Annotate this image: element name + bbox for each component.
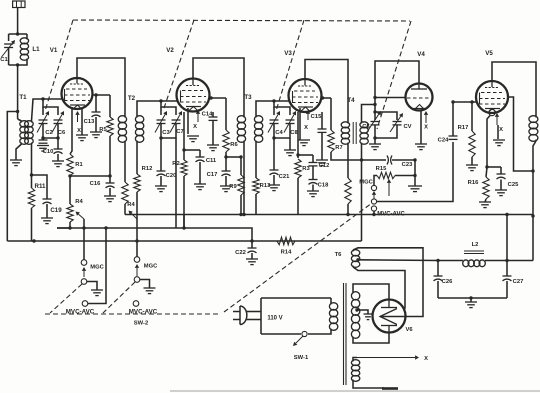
tube V1 bbox=[62, 78, 93, 109]
resistor R4 volume bbox=[69, 176, 71, 204]
wire V5 screen to output bbox=[508, 97, 533, 171]
ground switch1 bbox=[91, 289, 103, 291]
wire dashed gang slant 3 bbox=[276, 20, 304, 111]
tuning gang box stage2 bbox=[161, 101, 176, 115]
switch MGC 1 bbox=[83, 219, 85, 260]
svg-text:R4: R4 bbox=[75, 199, 83, 205]
inductor L1 bbox=[9, 33, 27, 35]
switch MGC 2 bbox=[136, 227, 138, 257]
ground switch2 bbox=[144, 287, 156, 289]
svg-text:110 V: 110 V bbox=[267, 316, 282, 322]
ground V2 cathode bbox=[187, 135, 199, 137]
wire antenna lead bbox=[17, 8, 19, 35]
svg-text:T2: T2 bbox=[128, 95, 136, 102]
resistor R16 bbox=[486, 167, 487, 177]
wire V2 plate bbox=[210, 97, 227, 99]
wire AVC rail 2 bbox=[57, 228, 252, 241]
ground plate bypass V1 bbox=[90, 131, 102, 133]
svg-text:R5: R5 bbox=[99, 127, 107, 133]
wire AVC to C24 bbox=[377, 142, 453, 202]
capacitor C21 bbox=[273, 138, 275, 170]
svg-text:C15: C15 bbox=[311, 114, 322, 120]
tube V5 bbox=[476, 81, 508, 113]
svg-text:R7: R7 bbox=[335, 145, 342, 151]
ground C20 bbox=[155, 185, 167, 187]
resistor R13 bbox=[255, 142, 257, 178]
svg-text:MGC: MGC bbox=[90, 265, 104, 271]
svg-text:C6: C6 bbox=[58, 130, 66, 136]
ground V3 cathode bbox=[298, 139, 310, 141]
svg-text:C22: C22 bbox=[235, 250, 246, 256]
svg-text:C17: C17 bbox=[207, 172, 218, 178]
capacitor C17 bbox=[225, 157, 227, 171]
capacitor C1 bbox=[8, 34, 10, 41]
wire V5 cathode bbox=[487, 116, 490, 168]
wire dashed switch link bottom bbox=[45, 313, 221, 315]
wire V1 plate bbox=[92, 94, 110, 96]
arrow C13 cathode bbox=[77, 115, 79, 122]
wire dashed gang slant 4 bbox=[377, 21, 411, 129]
T6 filament winding bottom bbox=[352, 360, 354, 362]
wire AVC rail stage1 bbox=[57, 227, 69, 229]
svg-text:R9: R9 bbox=[229, 184, 237, 190]
capacitor C12 bbox=[298, 154, 313, 156]
tube V6 bbox=[373, 300, 406, 333]
tube V3 bbox=[289, 79, 322, 112]
svg-text:R4: R4 bbox=[127, 202, 135, 208]
capacitor C16 bbox=[109, 176, 111, 183]
wire V2 top cap to T3 bbox=[193, 58, 244, 116]
wire to C19 bbox=[32, 175, 48, 199]
wire V4 top cap bbox=[375, 61, 419, 98]
wire HV top to V6 plate bbox=[353, 284, 389, 300]
variable capacitor C3 bbox=[157, 119, 166, 121]
resistor R15 bbox=[377, 172, 395, 178]
svg-text:R3: R3 bbox=[302, 166, 310, 172]
capacitor grid bypass stage1 bbox=[57, 138, 59, 149]
svg-text:X: X bbox=[193, 124, 197, 130]
svg-text:X: X bbox=[424, 356, 428, 362]
wire R16 C25 rail bbox=[487, 166, 501, 168]
resistor R11 bbox=[31, 175, 33, 188]
capacitor C19 bbox=[43, 198, 52, 200]
wire T3 secondary top to V3 grid bbox=[256, 101, 289, 116]
svg-text:C16: C16 bbox=[90, 181, 101, 187]
svg-text:SW-1: SW-1 bbox=[294, 355, 309, 361]
variable capacitor C4 bbox=[270, 119, 279, 121]
ground C19 bbox=[41, 217, 53, 219]
wire bus 3 bbox=[7, 240, 361, 242]
svg-text:R12: R12 bbox=[142, 166, 153, 172]
switch SW-1 bbox=[302, 331, 307, 336]
wire MVC3 stub bbox=[373, 211, 375, 214]
wire dashed switch slant 2 bbox=[103, 282, 135, 313]
wire B+ from rectifier bbox=[356, 258, 359, 261]
ground V3 bypass bbox=[316, 159, 328, 161]
capacitor C26 bbox=[437, 261, 439, 277]
tube V2 bbox=[177, 79, 210, 112]
arrow X V5 bbox=[496, 117, 498, 125]
tuning gang box stage1 bbox=[43, 99, 58, 115]
wire filter ground rail bbox=[438, 297, 507, 299]
inductor L2 bbox=[463, 260, 469, 267]
variable capacitor C2 bbox=[39, 119, 48, 121]
core L2 bbox=[464, 250, 484, 252]
wire MVC1 bbox=[88, 228, 106, 304]
svg-text:V1: V1 bbox=[50, 47, 58, 54]
svg-text:R17: R17 bbox=[458, 125, 469, 131]
svg-text:SW-2: SW-2 bbox=[134, 321, 148, 327]
svg-text:C1: C1 bbox=[0, 57, 8, 63]
output transformer coil bbox=[535, 116, 537, 118]
svg-text:V6: V6 bbox=[405, 327, 413, 333]
wire T2 secondary bottom to R12 bbox=[136, 142, 138, 174]
svg-text:C20: C20 bbox=[166, 173, 177, 179]
wire T1 secondary bottom bbox=[31, 144, 33, 175]
svg-text:C13: C13 bbox=[84, 119, 95, 125]
svg-text:T4: T4 bbox=[347, 97, 355, 104]
resistor R12 bbox=[134, 174, 140, 192]
svg-text:C26: C26 bbox=[442, 279, 453, 285]
variable capacitor C7 bbox=[172, 119, 181, 121]
wire R15 right bbox=[395, 175, 415, 177]
capacitor C11 bbox=[184, 149, 200, 151]
ground C16 bbox=[104, 195, 116, 197]
ground HV center tap bbox=[364, 313, 373, 315]
svg-text:T1: T1 bbox=[19, 94, 27, 101]
svg-text:MGC: MGC bbox=[144, 264, 158, 270]
wire filament X arrow bbox=[353, 358, 357, 361]
svg-text:C3: C3 bbox=[162, 130, 170, 136]
wire R15 ground branch bbox=[414, 160, 416, 186]
svg-text:R11: R11 bbox=[34, 183, 46, 190]
wire HV center tap ground bbox=[355, 308, 358, 311]
resistor T4 primary dropping bbox=[347, 144, 349, 178]
svg-text:C23: C23 bbox=[402, 162, 413, 168]
ground stage1 bypass bbox=[52, 160, 64, 162]
wire dashed to MVC3 bbox=[224, 203, 372, 312]
wire ground return left bbox=[7, 112, 17, 242]
svg-text:C12: C12 bbox=[319, 163, 330, 169]
ground V2 bypass bbox=[207, 144, 219, 146]
svg-text:V5: V5 bbox=[485, 50, 493, 57]
core T4 bbox=[352, 122, 354, 144]
svg-text:C11: C11 bbox=[206, 158, 217, 164]
wire HV bottom to V6 bbox=[353, 332, 389, 343]
wire T1 primary to ground bbox=[16, 144, 22, 160]
wire bottom page line bbox=[170, 390, 540, 392]
svg-text:X: X bbox=[499, 127, 503, 133]
wire output to B+ bbox=[532, 171, 534, 261]
T6 HV winding bbox=[352, 292, 354, 294]
node stage2 tuning bbox=[159, 99, 162, 102]
resistor R14 bbox=[277, 237, 295, 245]
node antenna junction bbox=[16, 32, 19, 35]
wire stage2 AVC return bbox=[175, 138, 177, 228]
ground T1 bbox=[10, 159, 22, 161]
ground stage3 branch bbox=[284, 149, 296, 151]
svg-text:R2: R2 bbox=[172, 161, 179, 167]
wire T1 secondary top to V1 grid bbox=[32, 99, 64, 121]
resistor R1 bbox=[67, 154, 73, 176]
ground V5 X bbox=[493, 139, 505, 141]
svg-text:R15: R15 bbox=[376, 166, 387, 172]
arrow C15 cathode bbox=[307, 114, 309, 120]
wire winding A bottom to V6 bbox=[353, 267, 405, 311]
tuning gang box stage3 bbox=[274, 101, 290, 115]
wire V4 grid bbox=[375, 98, 406, 105]
svg-text:T3: T3 bbox=[244, 94, 252, 101]
svg-text:C4: C4 bbox=[275, 130, 283, 136]
capacitor V2 cathode bypass bbox=[212, 112, 214, 117]
svg-text:V3: V3 bbox=[284, 50, 292, 57]
capacitor C25 bbox=[500, 167, 502, 174]
wire dashed gang slant 1 bbox=[45, 20, 73, 111]
svg-text:C27: C27 bbox=[513, 279, 524, 285]
svg-text:CV: CV bbox=[403, 124, 411, 130]
wire stage3 right branch ground bbox=[289, 138, 291, 150]
svg-text:R13: R13 bbox=[260, 183, 271, 189]
ground C18 bbox=[307, 190, 319, 192]
ground filter bbox=[470, 298, 472, 302]
capacitor C22 bbox=[251, 241, 253, 248]
arrow X V4 bbox=[425, 115, 427, 123]
wire R8 to B+ rail bbox=[124, 204, 126, 215]
wire V1 cathode right leg bbox=[81, 108, 83, 135]
variable capacitor C6 bbox=[54, 119, 63, 121]
capacitor C24 bbox=[449, 135, 458, 137]
svg-text:C18: C18 bbox=[318, 183, 329, 189]
capacitor C18 bbox=[309, 179, 318, 181]
ground C11 bbox=[194, 183, 206, 185]
wire R6 bottom node bbox=[226, 156, 241, 158]
resistor R7 bbox=[330, 98, 332, 130]
svg-text:R16: R16 bbox=[468, 180, 479, 186]
variable capacitor C8 bbox=[286, 119, 295, 121]
svg-text:MGC: MGC bbox=[359, 180, 373, 186]
capacitor V3 cathode bypass bbox=[321, 112, 323, 129]
ground C17 bbox=[220, 185, 232, 187]
chassis bar bbox=[382, 387, 398, 390]
wire V2 cathode ground bbox=[187, 108, 189, 134]
wire V5 top cap to output transformer bbox=[492, 62, 536, 116]
capacitor V1 plate bypass bbox=[95, 95, 97, 112]
svg-text:C19: C19 bbox=[50, 207, 62, 214]
svg-text:C25: C25 bbox=[508, 182, 519, 188]
wire T2 secondary top to V2 grid bbox=[137, 101, 177, 116]
node V1 grid tuning bbox=[41, 97, 44, 100]
svg-text:R1: R1 bbox=[75, 162, 83, 168]
ground V4 bbox=[415, 143, 427, 145]
arrow wiper to R4 second bbox=[131, 213, 137, 219]
capacitor C23 bbox=[387, 156, 388, 165]
ground R16 bbox=[479, 201, 491, 203]
wire V5 grid bbox=[453, 101, 476, 103]
svg-text:X: X bbox=[77, 128, 81, 134]
wire R11 to AVC bus bbox=[31, 208, 33, 241]
resistor R9 bbox=[240, 157, 242, 175]
tube V4 bbox=[406, 84, 433, 111]
wire switch1 ground bbox=[87, 282, 97, 291]
ground C22 bbox=[246, 258, 258, 260]
wire dashed gang slant 2 bbox=[163, 20, 194, 111]
arrow C14 cathode bbox=[197, 114, 199, 122]
wire V3 cathode ground bbox=[299, 108, 301, 140]
rectifier filament V6 bbox=[380, 309, 397, 325]
wire T3 primary bottom to rail bbox=[243, 142, 245, 215]
wire dashed gang top bbox=[73, 20, 410, 21]
variable capacitor CV bbox=[393, 121, 402, 123]
node stage3 tuning bbox=[272, 99, 275, 102]
ground V1 cathode X bbox=[76, 134, 88, 136]
resistor R17 bbox=[471, 102, 473, 131]
svg-text:L1: L1 bbox=[32, 46, 40, 53]
ground C21 bbox=[268, 184, 280, 186]
svg-text:C10: C10 bbox=[43, 149, 54, 155]
wire V1 top cap to T2 bbox=[77, 58, 125, 116]
svg-text:X: X bbox=[424, 125, 428, 131]
wire rail connector bbox=[183, 215, 185, 229]
wire V1 cathode to R1 bbox=[70, 107, 72, 154]
arrow wiper to R4 bbox=[78, 214, 84, 219]
wire switch2 ground bbox=[140, 280, 150, 289]
variable capacitor C5 box bbox=[374, 105, 376, 113]
svg-text:C2: C2 bbox=[45, 130, 52, 136]
wire R15 left to switch bbox=[374, 176, 377, 186]
capacitor C10 bbox=[42, 138, 44, 140]
ground R17 bbox=[466, 164, 478, 166]
wire filament bottom chassis bbox=[353, 381, 384, 388]
cathode circle V5 bbox=[489, 109, 495, 115]
capacitor C20 bbox=[160, 138, 162, 171]
svg-text:T6: T6 bbox=[335, 252, 343, 258]
ground R15 bbox=[408, 185, 422, 187]
resistor R8 bbox=[124, 142, 126, 182]
wire T4 secondary top bbox=[362, 105, 376, 123]
resistor R6 bbox=[225, 98, 227, 130]
ground C5 bbox=[369, 143, 381, 145]
wire L2 to C27 bbox=[485, 260, 533, 262]
switch box 110V bbox=[261, 297, 331, 299]
core T6 bbox=[343, 283, 345, 385]
svg-text:C21: C21 bbox=[279, 174, 290, 180]
svg-text:C24: C24 bbox=[438, 138, 449, 144]
plug 110V bbox=[240, 306, 247, 325]
wire V4 cathode bbox=[420, 110, 422, 144]
wire L1 to T1 bbox=[16, 63, 19, 66]
svg-text:R6: R6 bbox=[230, 142, 238, 148]
svg-text:V4: V4 bbox=[417, 51, 425, 58]
wire T4 secondary bottom bbox=[361, 144, 363, 160]
switch MVC 1 bbox=[82, 301, 88, 307]
wire V3 plate bbox=[321, 97, 331, 99]
svg-text:C5: C5 bbox=[362, 124, 370, 130]
wire C27 riser bbox=[506, 215, 508, 261]
switch MVC 2 bbox=[133, 301, 139, 307]
resistor R5 bbox=[109, 95, 111, 117]
wire B+ rail bbox=[125, 214, 533, 216]
wire V3 top cap to T4 bbox=[305, 60, 348, 123]
T6 filament winding top bbox=[352, 250, 354, 252]
wire R1 bottom bbox=[70, 175, 110, 177]
transformer T6 primary bbox=[330, 303, 332, 305]
svg-text:X: X bbox=[304, 125, 308, 131]
antenna bbox=[13, 1, 25, 8]
resistor R3 bbox=[297, 112, 299, 158]
capacitor C27 bbox=[506, 261, 508, 277]
resistor R2 bbox=[183, 112, 185, 160]
ground C25 bbox=[495, 189, 507, 191]
svg-text:C7: C7 bbox=[176, 129, 183, 135]
ground C10 bbox=[37, 145, 49, 147]
svg-text:R14: R14 bbox=[281, 250, 292, 256]
svg-text:L2: L2 bbox=[472, 242, 479, 248]
variable capacitor C5 bbox=[371, 121, 380, 123]
wire winding A top to V6 filament bbox=[353, 248, 423, 317]
filter B+ rail bbox=[438, 260, 463, 262]
svg-text:V2: V2 bbox=[166, 47, 174, 54]
arrow R15 wiper bbox=[388, 183, 390, 196]
wire dashed switch slant 1 bbox=[50, 284, 82, 313]
